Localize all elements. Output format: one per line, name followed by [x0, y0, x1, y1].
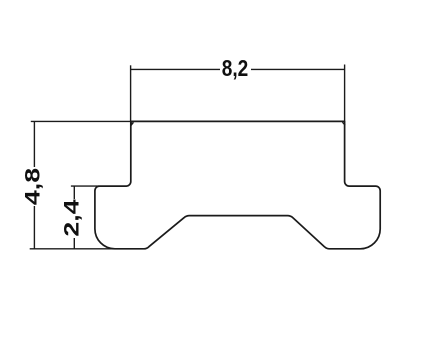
dimension line 2,4	[73, 186, 75, 249]
dimension line 4,8	[33, 121, 35, 248]
extension line bottom of 4,8	[30, 248, 113, 250]
dimension line 8,2	[131, 68, 345, 70]
extension line top of 4,8	[31, 120, 131, 122]
extension line top of 2,4	[71, 185, 99, 187]
profile outline	[95, 121, 380, 248]
svg-text:4,8: 4,8	[22, 168, 45, 206]
extension line right of 8,2	[344, 65, 346, 122]
svg-text:8,2: 8,2	[222, 55, 249, 81]
text mask 4,8	[23, 167, 41, 206]
text mask 2,4	[63, 199, 81, 238]
svg-text:2,4: 2,4	[61, 199, 84, 237]
extension line left of 8,2	[130, 65, 132, 121]
text mask 8,2	[220, 56, 251, 84]
tick at left junction of top edge	[131, 122, 134, 126]
tick at right junction of top edge	[342, 122, 345, 125]
